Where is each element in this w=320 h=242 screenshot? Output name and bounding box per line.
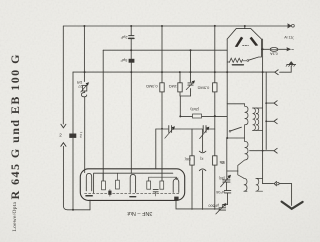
wire vertical x131 cap chain — [130, 26, 132, 173]
rectifier envelope — [227, 29, 261, 39]
twin vertical right — [265, 72, 267, 149]
wire tap y138 — [227, 137, 244, 139]
tube V3 outline — [173, 179, 179, 192]
svg-text:Al 11(: Al 11( — [284, 36, 294, 40]
svg-text:60: 60 — [221, 161, 225, 165]
trimmer capacitor bottom — [216, 203, 228, 214]
wire to big arrow — [279, 184, 291, 206]
wire rail y116.6 — [180, 116, 227, 118]
in-box wire V1 to R — [94, 173, 173, 193]
in-box wire over tube2 — [116, 173, 118, 180]
rectifier filament dashes — [243, 45, 249, 47]
wire second vertical x73 — [72, 72, 74, 210]
capacitor 2uF — [129, 36, 134, 39]
connector chevron on rail y72 — [275, 70, 278, 75]
terminal y183 with circle — [263, 183, 274, 185]
transformer bottom coil left — [244, 178, 247, 191]
wire left frame vertical lower — [63, 146, 90, 210]
trimmer capacitor series 2 — [200, 126, 210, 139]
in-box wire to tube3 — [149, 177, 178, 181]
connector chevron lower on left line — [61, 143, 66, 147]
tube socket box — [80, 169, 184, 201]
wire rail y72 — [73, 71, 275, 73]
wire vertical x103 down into box — [102, 50, 104, 181]
resistor 2k5 horizontal on rail — [193, 114, 202, 118]
terminal y103 — [266, 102, 273, 104]
heater resistor zigzag — [229, 58, 242, 62]
wire fuse to arrow — [279, 48, 287, 50]
wire branch y171 to coil elbow — [227, 170, 238, 172]
switch S1 — [247, 60, 249, 62]
fuse line — [261, 48, 269, 50]
trimmer capacitor lower right — [221, 175, 231, 190]
wire tap to coil top — [227, 103, 244, 105]
wire x227 lower — [226, 72, 228, 138]
svg-text:3NF – Nut: 3NF – Nut — [127, 210, 153, 216]
transformer primary coil upper — [245, 104, 248, 142]
trimmer capacitor series 1 — [165, 126, 175, 139]
title text vertical — [8, 53, 22, 231]
twin vertical left — [262, 39, 264, 184]
wire vertical x190.5 — [190, 50, 192, 96]
svg-text:2: 2 — [59, 133, 62, 138]
label heater 2 tilde — [79, 130, 83, 138]
svg-text:27: 27 — [78, 84, 82, 88]
terminal y150 — [250, 150, 274, 152]
svg-text:R 645 G und EB 100 G: R 645 G und EB 100 G — [8, 53, 22, 199]
heater underline bar — [232, 64, 243, 66]
wire left frame vertical upper — [62, 26, 64, 124]
svg-text:0,5MΩ: 0,5MΩ — [198, 86, 210, 91]
transformer primary coil mid — [238, 141, 248, 178]
label DR 27 — [77, 80, 83, 88]
arrow terminal top rail — [288, 24, 292, 28]
resistor R2 — [178, 83, 182, 92]
in-box resistor 1 — [102, 181, 106, 190]
svg-text:Loewe/Opta: Loewe/Opta — [12, 202, 18, 232]
fuse body — [270, 48, 278, 52]
svg-text:1MΩ: 1MΩ — [169, 84, 177, 89]
rectifier anode left (filled) — [235, 37, 243, 47]
in-box resistor 4 — [160, 181, 164, 189]
transformer bottom coil right — [256, 178, 263, 191]
svg-text:(80): (80) — [219, 176, 225, 180]
wire rail y72 right stub to ground — [280, 66, 292, 72]
wire bottom rail right — [176, 200, 220, 210]
transformer secondary coil pair upper — [253, 108, 256, 130]
wire vertical x180 — [180, 72, 191, 117]
svg-text:5µF: 5µF — [120, 58, 128, 63]
choke DR27 arrow — [81, 84, 87, 92]
rectifier stub to top rail — [244, 26, 246, 29]
wire bottom-left riser to tube box — [89, 200, 91, 210]
resistor lower B x215 (shares x214.8 line) — [213, 156, 217, 165]
in-box resistor 2 — [116, 180, 120, 189]
rectifier anode right (filled) — [250, 37, 259, 46]
svg-text:µF08: µF08 — [216, 190, 224, 194]
svg-text:D6(: D6( — [184, 157, 191, 161]
wire vertical x214.8 — [214, 26, 216, 209]
arrow terminal y49 — [287, 48, 291, 51]
in-box capacitor 3 (filled) — [174, 197, 178, 200]
trimmer capacitor at x190.5 — [186, 80, 195, 89]
svg-text:0,3A: 0,3A — [270, 51, 278, 55]
wire vertical x162 chain — [161, 26, 163, 181]
jack break x202.6 — [202, 129, 204, 209]
tube V1 cathode bar — [86, 195, 92, 197]
svg-text:2µF: 2µF — [120, 35, 128, 40]
wire vertical x84 (antenna branch) — [83, 26, 85, 173]
rectifier box right side — [260, 39, 262, 49]
resistor lower A x192 — [191, 129, 193, 209]
svg-text:K): K) — [200, 157, 203, 161]
connector chevron upper on left line — [61, 124, 66, 128]
in-box capacitor 2 — [153, 190, 158, 192]
capacitor 5uF (filled) — [129, 59, 135, 63]
resistor R1 — [160, 83, 164, 92]
rectifier box left side — [226, 39, 228, 72]
svg-text:µF500: µF500 — [208, 203, 219, 207]
capacitor at 227.5 — [224, 191, 230, 193]
in-box dashed chassis line — [85, 192, 180, 194]
wire rail y50 — [103, 49, 227, 51]
wire horizontal y129 with series trimmers — [156, 128, 215, 130]
in-box capacitor (filled) — [108, 191, 111, 195]
svg-text:0,3MΩ: 0,3MΩ — [146, 84, 158, 89]
svg-text:(2k5): (2k5) — [190, 107, 200, 112]
switch S2 — [229, 130, 231, 132]
capacitor C-block on x73 (filled) — [69, 134, 76, 138]
big ground arrow — [282, 202, 303, 209]
choke DR27 loop — [81, 91, 86, 97]
wire x227 to lower cluster — [226, 138, 228, 180]
tube V2 outline — [130, 174, 135, 192]
svg-text:DR: DR — [77, 80, 83, 84]
wire top rail — [63, 25, 288, 27]
choke DR27 body — [83, 85, 87, 91]
resistor R3 — [213, 83, 217, 92]
terminal y121 — [266, 120, 273, 122]
in-box resistor 3 — [147, 181, 151, 189]
ground symbol right — [286, 62, 296, 67]
tube V1 outline — [86, 173, 91, 190]
